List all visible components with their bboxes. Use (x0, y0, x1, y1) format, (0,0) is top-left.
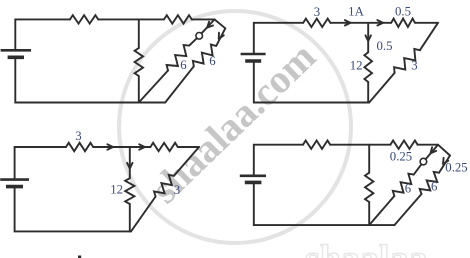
wire: middle vertical branch (367, 23, 369, 53)
resistor 3 (top) (66, 143, 93, 151)
arrow on left diagonal (431, 147, 437, 153)
resistor R2 (top-right horizontal) (164, 15, 192, 23)
resistor 6 (left diagonal) (167, 45, 190, 70)
wire: left lower + bottom rail (15, 57, 165, 102)
wire: middle vertical branch (138, 19, 140, 48)
svg-text:6: 6 (180, 58, 187, 72)
svg-text:shaalaa: shaalaa (305, 238, 427, 258)
wire: left diagonal lower (369, 196, 394, 225)
wire: left + top rails (254, 145, 303, 176)
wire: left + top rails (254, 23, 303, 54)
resistor 3 (diagonal) (154, 175, 174, 197)
wire: middle vertical lower (129, 204, 131, 231)
svg-text:3: 3 (314, 5, 320, 19)
svg-text:3: 3 (174, 183, 180, 197)
wire: right diagonal lower (165, 66, 194, 102)
wire: corner bevel (438, 145, 450, 156)
wire: left + top rails (15, 147, 66, 179)
resistor 6 (right diagonal) (420, 172, 439, 194)
wire: circle to resistor stub (189, 38, 197, 45)
svg-text:3: 3 (75, 129, 81, 143)
circuit 2 (top-right) (241, 5, 438, 103)
resistor 6 (left diagonal) (393, 174, 414, 196)
wire: right diagonal lower (394, 194, 421, 225)
resistor (top-right horizontal) (150, 143, 177, 151)
wire: corner bevel V1-V2 (215, 19, 226, 28)
wire: left diagonal branch upper (202, 19, 215, 33)
wire: circle to resistor stub (414, 164, 422, 174)
arrow on left diagonal (207, 22, 213, 28)
resistor (middle vertical) (135, 48, 143, 76)
resistor 3 (diagonal) (394, 49, 420, 73)
wire: middle vertical lower (368, 202, 370, 225)
battery cell (0, 180, 29, 187)
wire: left + top + bottom rails (15, 19, 70, 49)
circuit 4 (bottom-right) (240, 141, 468, 226)
wire: left lower + bottom rail (254, 183, 395, 225)
arrow after junction (139, 144, 145, 149)
wire: top rail segments (330, 22, 391, 24)
wire: right diagonal upper (420, 23, 438, 50)
svg-text:6: 6 (431, 180, 438, 194)
wire: left diagonal lower (139, 71, 168, 103)
svg-text:6: 6 (405, 182, 412, 196)
svg-text:12: 12 (110, 183, 123, 197)
arrow after junction (377, 20, 383, 25)
watermark circle logo (119, 11, 351, 243)
battery cell (241, 54, 266, 61)
wire: left lower + bottom rail (15, 187, 131, 232)
resistor 12 (middle vertical) (364, 52, 372, 82)
svg-text:0.5: 0.5 (395, 5, 411, 19)
svg-text:0.5: 0.5 (377, 39, 393, 53)
wire: middle vertical lower (367, 82, 369, 103)
wire: right diagonal lower (369, 73, 394, 103)
wire: top rail segments (98, 18, 164, 20)
wire: right diagonal upper (216, 28, 225, 46)
wire: left lower + bottom rail (254, 61, 369, 103)
arrow down on middle branch (366, 35, 371, 41)
circuit 3 (bottom-left) (0, 129, 199, 231)
arrow 1A on top wire (345, 20, 351, 25)
resistor (middle vertical) (365, 173, 373, 202)
svg-text:6: 6 (209, 54, 216, 68)
resistor 3 (top) (303, 19, 330, 27)
wire: middle vertical branch (368, 145, 370, 173)
ammeter circle on left diagonal (196, 33, 203, 40)
circuit 1 (top-left) (1, 15, 226, 102)
wire: right diagonal upper (439, 156, 450, 173)
wire: left diagonal upper (426, 145, 438, 160)
svg-text:0.25: 0.25 (445, 161, 467, 175)
resistor 0.5 (top) (391, 19, 415, 27)
wire: top rail segments (93, 146, 150, 148)
wire: middle vertical branch (129, 147, 131, 178)
resistor 0.25 (top-right horizontal) (390, 141, 417, 149)
wire: right diagonal upper (174, 147, 199, 176)
svg-text:0.25: 0.25 (390, 149, 412, 163)
arrow on top wire (107, 144, 113, 149)
svg-text:12: 12 (350, 58, 363, 72)
svg-text:3: 3 (411, 59, 417, 73)
resistor (top-left horizontal) (303, 141, 330, 149)
resistor 6 (right diagonal) (193, 45, 216, 67)
resistor 12 (middle vertical) (125, 178, 134, 204)
ammeter circle on left diagonal (420, 158, 427, 165)
cropped caption mark at bottom edge (78, 256, 81, 258)
wire: middle vertical lower (138, 76, 140, 103)
svg-text:1A: 1A (348, 5, 364, 19)
arrow on right diagonal (219, 33, 224, 39)
arrow down on middle branch (127, 163, 132, 169)
battery cell (240, 176, 266, 183)
resistor R1 (top-left horizontal) (70, 15, 98, 23)
arrow on right diagonal (443, 158, 448, 164)
battery cell (1, 50, 31, 57)
wire: right diagonal lower (131, 197, 156, 232)
wire: top rail segments (330, 144, 390, 146)
